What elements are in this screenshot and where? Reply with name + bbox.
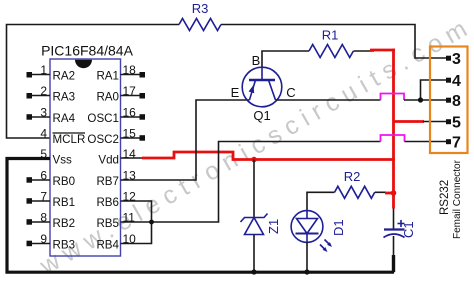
IC pin numbers right: [123, 63, 137, 246]
svg-text:RS232: RS232: [439, 180, 451, 215]
svg-text:D1: D1: [331, 219, 346, 236]
svg-text:18: 18: [123, 63, 137, 77]
wire MCLR to R3 left (net MCLR): [7, 25, 180, 139]
resistor R2: [335, 186, 375, 198]
zener Z1: [241, 214, 268, 235]
svg-text:17: 17: [123, 84, 137, 98]
pin 17 RA0 stub + square: [121, 95, 140, 97]
svg-text:RB4: RB4: [96, 239, 119, 252]
svg-text:4: 4: [40, 127, 47, 141]
wire Q1 collector to hop: [275, 99, 380, 101]
svg-text:Z1: Z1: [266, 219, 281, 234]
wire RB7 to Q1 emitter: [121, 100, 250, 180]
pin 1 RA2 stub + no-connect square: [31, 74, 50, 76]
pin 2 RA3 stub + square: [31, 95, 50, 97]
svg-text:RA3: RA3: [53, 91, 76, 104]
node D1 ground junction: [304, 269, 309, 274]
svg-text:R3: R3: [192, 1, 209, 16]
svg-text:6: 6: [40, 169, 47, 183]
transistor Q1: [242, 67, 282, 107]
wire Vdd red rail: [142, 152, 395, 160]
wire Z1 top: [253, 160, 255, 218]
svg-text:Q1: Q1: [253, 108, 270, 123]
node Z1 ground junction: [251, 269, 256, 274]
svg-text:12: 12: [123, 190, 137, 204]
svg-text:B: B: [252, 53, 261, 68]
svg-text:RA1: RA1: [96, 70, 119, 83]
pin 14 Vdd stub: [121, 157, 143, 159]
IC notch: [75, 60, 92, 68]
wire R3 right to RS232 pin 3: [221, 25, 446, 59]
svg-text:C1: C1: [401, 221, 416, 238]
resistor R3: [179, 19, 221, 31]
IC U1 PIC16F84/84A body: [50, 59, 121, 256]
wire Z1 bottom: [253, 235, 255, 273]
pin 15 OSC2 stub + square: [121, 137, 140, 139]
svg-text:R1: R1: [322, 28, 339, 43]
wire R1 to red vertical: [370, 49, 395, 52]
svg-text:OSC1: OSC1: [87, 112, 119, 125]
pin 5 square: [446, 119, 451, 124]
wire R1 right black: [354, 50, 375, 52]
node RB5 junction: [149, 220, 154, 225]
wire pin5 black tail: [423, 121, 446, 123]
wire red vertical main: [392, 49, 395, 209]
pin 3 RA4 stub + square: [31, 116, 50, 118]
svg-text:2: 2: [40, 84, 47, 98]
svg-text:RA2: RA2: [53, 70, 76, 83]
wire C1 ground riser (thick): [392, 255, 395, 272]
svg-text:10: 10: [123, 232, 137, 246]
pin 7 RB1 stub + square: [31, 200, 50, 202]
wire Q1 base lead: [262, 51, 309, 67]
svg-text:15: 15: [123, 127, 137, 141]
svg-text:4: 4: [452, 73, 461, 90]
svg-text:OSC2: OSC2: [87, 133, 119, 146]
svg-text:PIC16F84/84A: PIC16F84/84A: [41, 43, 133, 59]
MCLR overline: [53, 132, 86, 134]
svg-text:RA4: RA4: [53, 112, 76, 125]
svg-text:RB5: RB5: [96, 217, 119, 230]
pin 7 square: [446, 139, 451, 144]
pin 3 square: [446, 56, 451, 61]
pin 18 RA1 stub + square: [121, 74, 140, 76]
wire hop1 to RS232 pin 8: [404, 99, 446, 101]
svg-text:16: 16: [123, 106, 137, 120]
svg-text:RB7: RB7: [96, 175, 119, 188]
svg-text:R2: R2: [344, 169, 361, 184]
capacitor C1: [384, 209, 405, 257]
node Vdd/Z1 junction: [251, 157, 257, 163]
pin 8 RB2 stub + square: [31, 221, 50, 223]
pin 6 RB0 stub + square: [31, 179, 50, 181]
svg-text:5: 5: [452, 115, 461, 132]
svg-text:9: 9: [40, 232, 47, 246]
svg-text:E: E: [231, 85, 240, 100]
IC pin labels right: [87, 70, 119, 252]
svg-text:7: 7: [452, 135, 461, 152]
pin 4 square: [446, 78, 451, 83]
wire RB5 to RS232 pin 7: [121, 142, 381, 223]
wire R2 left to LED top: [307, 192, 335, 211]
IC pin numbers left: [40, 63, 47, 246]
svg-text:3: 3: [452, 51, 461, 68]
svg-text:RB3: RB3: [53, 239, 76, 252]
svg-text:11: 11: [123, 211, 136, 225]
svg-text:Vdd: Vdd: [98, 154, 119, 167]
wire hop2 to RS232 pin 7: [405, 141, 447, 143]
wire pin4-pin8 tie: [421, 80, 447, 100]
svg-text:14: 14: [123, 147, 137, 161]
svg-text:RB6: RB6: [96, 196, 119, 209]
wire hop2 magenta over red: [381, 135, 405, 142]
svg-text:3: 3: [40, 106, 47, 120]
svg-text:RB0: RB0: [53, 175, 76, 188]
node pin8 junction: [418, 97, 423, 102]
svg-text:7: 7: [40, 190, 47, 204]
svg-text:5: 5: [40, 147, 47, 161]
node R2 red junction: [391, 190, 397, 196]
LED D1: [291, 211, 332, 252]
svg-text:Femail Connector: Femail Connector: [452, 159, 463, 239]
pin 8 square: [446, 98, 451, 103]
svg-text:8: 8: [452, 93, 461, 110]
pin 16 OSC1 stub + square: [121, 116, 140, 118]
svg-text:RA0: RA0: [96, 91, 119, 104]
wire Vss ground net (thick): [7, 159, 394, 273]
svg-text:8: 8: [40, 211, 47, 225]
svg-text:13: 13: [123, 169, 137, 183]
wire R2 right: [375, 191, 386, 193]
resistor R1: [309, 45, 353, 58]
RS232 connector J1: [430, 47, 468, 154]
svg-text:RB2: RB2: [53, 217, 76, 230]
svg-text:MCLR: MCLR: [53, 133, 86, 146]
svg-text:1: 1: [40, 63, 47, 77]
IC pin labels left: [53, 70, 86, 252]
svg-text:C: C: [286, 85, 295, 100]
pin 9 RB3 stub + square: [31, 243, 50, 245]
wire D1 bottom: [306, 242, 308, 272]
svg-text:Vss: Vss: [53, 154, 73, 167]
wire red to RS232 pin 5: [394, 120, 425, 123]
wire RB6 RB5 RB4 tie: [121, 201, 152, 244]
svg-text:RB1: RB1: [53, 196, 76, 209]
wire hop1 magenta over red: [381, 94, 405, 101]
